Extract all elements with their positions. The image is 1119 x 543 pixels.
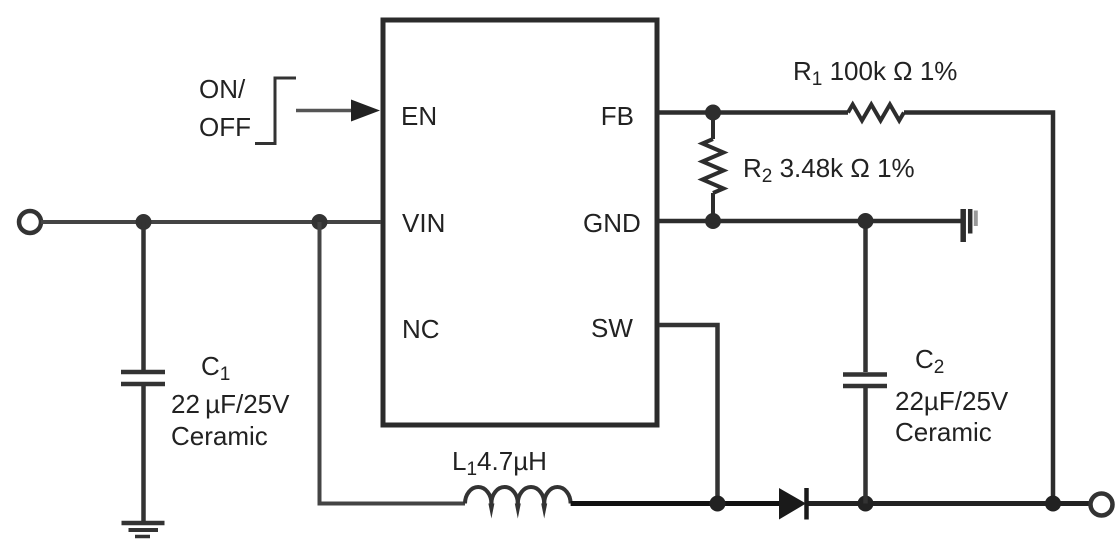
svg-text:Ceramic: Ceramic — [895, 417, 992, 447]
svg-text:GND: GND — [583, 208, 641, 238]
svg-text:OFF: OFF — [199, 112, 251, 142]
svg-text:EN: EN — [401, 101, 437, 131]
svg-text:L14.7µH: L14.7µH — [452, 446, 547, 480]
svg-text:Ceramic: Ceramic — [171, 421, 268, 451]
svg-text:22 µF/25V: 22 µF/25V — [171, 389, 290, 419]
svg-text:FB: FB — [601, 101, 634, 131]
svg-text:NC: NC — [402, 314, 440, 344]
svg-text:22µF/25V: 22µF/25V — [895, 386, 1009, 416]
svg-text:VIN: VIN — [402, 208, 445, 238]
svg-text:SW: SW — [591, 313, 633, 343]
svg-text:ON/: ON/ — [199, 74, 246, 104]
